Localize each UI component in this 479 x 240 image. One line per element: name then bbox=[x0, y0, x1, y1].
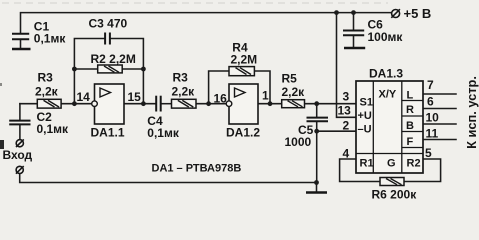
svg-text:2,2М: 2,2М bbox=[231, 53, 258, 67]
wire C5 bottom lead down to bottom rail bbox=[316, 122, 318, 183]
svg-text:7: 7 bbox=[427, 78, 434, 92]
junction bottom rail / ground bbox=[314, 180, 319, 185]
capacitor C4 bbox=[156, 96, 161, 112]
capacitor C2 bbox=[9, 121, 30, 125]
resistor R4 2,2M bbox=[229, 41, 257, 76]
svg-text:–U: –U bbox=[358, 124, 372, 136]
junction node A (R3/C2/feedback) bbox=[72, 101, 77, 106]
svg-text:C3 470: C3 470 bbox=[89, 17, 128, 31]
junction R2 left bbox=[72, 67, 77, 72]
svg-text:1000: 1000 bbox=[285, 135, 312, 149]
junction DA1.2 output node bbox=[268, 101, 273, 106]
capacitor C1 bbox=[12, 34, 29, 40]
IC DA1.3 bbox=[356, 67, 423, 174]
svg-text:4: 4 bbox=[343, 147, 350, 161]
svg-text:10: 10 bbox=[426, 111, 440, 125]
wire DA1.2 output to R5 bbox=[258, 103, 282, 105]
wire C5 top lead bbox=[316, 104, 318, 117]
svg-text:R1: R1 bbox=[360, 158, 374, 170]
svg-text:DA1 – РТВА978В: DA1 – РТВА978В bbox=[152, 163, 242, 175]
scan left edge artifact bbox=[0, 140, 4, 149]
wire R3.2 to DA1.2 input bbox=[196, 103, 226, 105]
wire R4 right lead down to output bbox=[254, 71, 270, 104]
svg-text:R2 2,2М: R2 2,2М bbox=[91, 52, 136, 66]
svg-text:R6 200к: R6 200к bbox=[372, 188, 418, 202]
junction C5 bottom / pin2 node bbox=[314, 129, 319, 134]
wire feedback loop DA1.1 left vertical bbox=[74, 39, 105, 104]
ground under C6 bbox=[344, 47, 365, 49]
svg-text:2,2к: 2,2к bbox=[282, 85, 306, 99]
svg-text:5: 5 bbox=[425, 146, 432, 160]
svg-text:DA1.2: DA1.2 bbox=[226, 126, 260, 140]
op-amp DA1.1 bbox=[77, 84, 142, 140]
svg-text:0,1мк: 0,1мк bbox=[34, 32, 67, 46]
wire C3 right to loop right vertical bbox=[110, 39, 143, 104]
wire R6 to pin5 R2 bbox=[404, 159, 441, 182]
svg-text:2: 2 bbox=[343, 118, 350, 132]
junction R5/C5/pin3 node bbox=[314, 101, 319, 106]
svg-text:100мк: 100мк bbox=[368, 30, 404, 44]
svg-text:DA1.3: DA1.3 bbox=[369, 67, 403, 81]
svg-text:G: G bbox=[387, 158, 396, 170]
junction DA1.1 output node bbox=[141, 101, 146, 106]
capacitor C6 bbox=[343, 31, 364, 36]
svg-text:К исп. устр.: К исп. устр. bbox=[464, 76, 479, 149]
wire C6 bottom lead bbox=[353, 36, 355, 47]
svg-text:R5: R5 bbox=[282, 72, 298, 86]
wire DA1.1 output to C4 bbox=[124, 103, 156, 105]
junction DA1.2 input node bbox=[206, 101, 211, 106]
wire R5 to DA1.3 pin3 S1 bbox=[305, 103, 357, 105]
svg-text:6: 6 bbox=[427, 95, 434, 109]
svg-text:R3: R3 bbox=[38, 71, 54, 85]
junction R2 right bbox=[141, 67, 146, 72]
wire C6 top lead bbox=[353, 13, 355, 30]
wire DA1.3 pin7 L output bbox=[423, 93, 456, 95]
wire pin4 R1 to R6 bbox=[340, 159, 380, 182]
resistor R5 2,2k bbox=[282, 72, 306, 108]
svg-text:F: F bbox=[407, 136, 414, 148]
svg-text:X/Y: X/Y bbox=[379, 89, 397, 101]
wire C2 lower lead to input terminal bbox=[19, 126, 21, 139]
svg-text:Вход: Вход bbox=[3, 148, 33, 162]
ground bottom rail bbox=[306, 191, 327, 193]
junction dot top rail / C6 bbox=[351, 10, 356, 15]
svg-text:15: 15 bbox=[128, 90, 142, 104]
capacitor C3 bbox=[105, 33, 110, 45]
svg-text:R2: R2 bbox=[407, 158, 421, 170]
svg-text:+5 В: +5 В bbox=[404, 6, 432, 21]
wire pin2 -U bbox=[317, 130, 356, 132]
ground under C1 bbox=[12, 48, 31, 50]
svg-text:16: 16 bbox=[214, 92, 228, 106]
wire feedback loop DA1.2 left vertical bbox=[209, 71, 229, 104]
wire C1 bottom lead bbox=[20, 40, 22, 48]
svg-text:2,2к: 2,2к bbox=[35, 85, 59, 99]
scan top edge artifact bbox=[2, 2, 388, 4]
wire R2 right lead bbox=[122, 68, 143, 70]
wire DA1.3 pin10 B output bbox=[423, 123, 456, 125]
wire power drop to pin13 +U bbox=[337, 13, 357, 118]
resistor R3 (input) bbox=[35, 71, 61, 109]
svg-text:+U: +U bbox=[358, 110, 372, 122]
svg-text:DA1.1: DA1.1 bbox=[91, 126, 125, 140]
svg-text:11: 11 bbox=[426, 127, 439, 141]
svg-text:B: B bbox=[406, 120, 414, 132]
wire DA1.3 pin6 R output bbox=[423, 108, 456, 110]
svg-text:0,1мк: 0,1мк bbox=[37, 122, 70, 136]
wire input terminal 2 to bottom rail bbox=[20, 174, 317, 182]
resistor R6 200k bbox=[372, 178, 418, 202]
svg-text:14: 14 bbox=[77, 90, 91, 104]
svg-text:2,2к: 2,2к bbox=[172, 85, 196, 99]
svg-text:0,1мк: 0,1мк bbox=[147, 126, 180, 140]
input terminal 2 bbox=[16, 166, 24, 174]
wire R3 right lead to node A bbox=[61, 103, 92, 105]
resistor R3 (second) bbox=[172, 71, 197, 109]
wire C4 to R3.2 bbox=[161, 103, 172, 105]
svg-text:L: L bbox=[407, 90, 414, 102]
wire R2 left lead bbox=[74, 68, 97, 70]
resistor R2 2,2M bbox=[91, 52, 136, 73]
svg-text:3: 3 bbox=[343, 89, 350, 103]
wire input node horizontal (C2/R3 corner) bbox=[19, 104, 21, 120]
terminal +5V bbox=[391, 9, 400, 18]
svg-text:1: 1 bbox=[262, 89, 269, 103]
svg-text:13: 13 bbox=[338, 103, 352, 117]
capacitor C5 bbox=[307, 118, 329, 122]
junction dot top rail / power drop bbox=[334, 10, 339, 15]
wire DA1.3 pin11 F output bbox=[423, 139, 456, 141]
svg-text:S1: S1 bbox=[360, 97, 373, 109]
svg-text:R: R bbox=[406, 104, 414, 116]
wire top +5V rail bbox=[21, 13, 392, 33]
input terminal 1 bbox=[16, 139, 24, 147]
op-amp DA1.2 bbox=[214, 84, 270, 140]
wire ground stub bottom bbox=[316, 183, 318, 192]
svg-text:R3: R3 bbox=[173, 71, 189, 85]
